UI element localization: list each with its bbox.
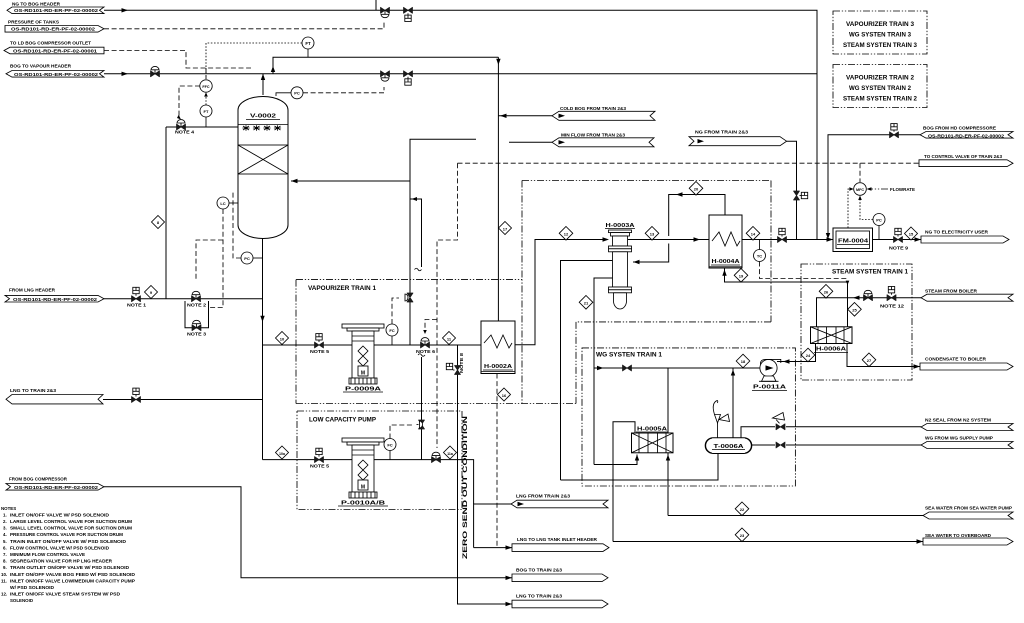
flag: TO LD BOG COMPRESSOR OUTLET (4, 41, 104, 54)
svg-text:STEAM SYSTEN TRAIN 3: STEAM SYSTEN TRAIN 3 (843, 42, 918, 49)
diamond 19 (734, 269, 748, 283)
svg-text:LNG FROM TRAIN 2&3: LNG FROM TRAIN 2&3 (516, 494, 571, 499)
flag: LNG TO TRAIN 2&3 (left) (6, 388, 103, 404)
svg-text:3.: 3. (3, 526, 7, 531)
svg-text:WG SYSTEN TRAIN 3: WG SYSTEN TRAIN 3 (849, 32, 912, 39)
svg-text:CONDENSATE TO BOILER: CONDENSATE TO BOILER (925, 357, 987, 362)
svg-text:INLET ON/OFF VALVE BOG FEED W/: INLET ON/OFF VALVE BOG FEED W/ PSD SOLEN… (10, 572, 135, 577)
svg-text:TRAIN OUTLET ON/OFF VALVE W/ P: TRAIN OUTLET ON/OFF VALVE W/ PSD SOLENOI… (10, 565, 129, 570)
wire: sea water overboard (613, 541, 923, 543)
svg-text:FLOWRATE: FLOWRATE (890, 187, 915, 192)
svg-text:TO CONTROL VALVE OF TRAIN 2&3: TO CONTROL VALVE OF TRAIN 2&3 (924, 154, 1003, 159)
wire: condensate to boiler (847, 344, 920, 367)
svg-text:25: 25 (852, 308, 857, 313)
flag: BOG TO TRAIN 2&3 (506, 568, 609, 582)
diamond 15 (905, 227, 918, 240)
H-0006A heater (811, 327, 853, 353)
flag: N2 SEAL FROM N2 SYSTEM (921, 418, 1013, 431)
bypass loop w/ NOTE 3 valve (185, 301, 209, 328)
svg-text:NG TO BOG HEADER: NG TO BOG HEADER (12, 2, 61, 7)
svg-text:SOLENOID: SOLENOID (10, 598, 33, 603)
svg-text:H-0004A: H-0004A (712, 259, 741, 265)
svg-text:COLD BOG FROM TRAIN 2&3: COLD BOG FROM TRAIN 2&3 (560, 106, 627, 111)
PSV on tank (713, 401, 729, 438)
flag: LNG FROM TRAIN 2&3 (474, 494, 608, 548)
wire (103, 399, 263, 401)
svg-text:PC: PC (876, 217, 882, 222)
svg-text:PC: PC (294, 91, 300, 96)
wire: pump suction/discharge main (263, 344, 482, 346)
svg-text:LOW CAPACITY PUMP: LOW CAPACITY PUMP (309, 417, 376, 424)
svg-text:13: 13 (650, 232, 655, 237)
wire: H-0004A heating side to H-0006A (725, 268, 848, 327)
diamond 22 (735, 502, 749, 516)
flow arrow (122, 8, 129, 12)
packing section (238, 145, 288, 174)
svg-text:2.: 2. (3, 519, 7, 524)
diamond 27 (862, 353, 876, 367)
control valve NOTE 2 (192, 291, 201, 301)
pump P-0010A/B (342, 438, 384, 498)
svg-text:LNG TO TRAIN 2&3: LNG TO TRAIN 2&3 (516, 594, 563, 599)
svg-text:17: 17 (503, 226, 508, 231)
min flow valve (vertical, actuator left) (417, 420, 425, 429)
svg-text:STEAM FROM BOILER: STEAM FROM BOILER (925, 289, 978, 294)
flag: NG FROM TRAIN 2&3 (689, 130, 797, 240)
diamond 14 (746, 227, 760, 241)
svg-text:WG SYSTEN TRAIN 1: WG SYSTEN TRAIN 1 (596, 352, 663, 359)
svg-text:8.: 8. (3, 559, 7, 564)
svg-text:P-0011A: P-0011A (753, 385, 787, 391)
instrument PC (873, 214, 885, 240)
svg-text:TRAIN INLET ON/OFF VALVE W/ PS: TRAIN INLET ON/OFF VALVE W/ PSD SOLENOID (10, 539, 126, 544)
svg-text:NOTE 6: NOTE 6 (416, 349, 436, 354)
svg-text:VAPOURIZER TRAIN 2: VAPOURIZER TRAIN 2 (846, 75, 915, 82)
signal: FT to FFC (206, 43, 302, 79)
signal: FM to MFC (848, 189, 852, 228)
valve NOTE 5 w/ solenoid (315, 448, 324, 462)
svg-text:OS-RD101-RD-ER-PF-02-00002: OS-RD101-RD-ER-PF-02-00002 (11, 27, 96, 32)
svg-text:5.: 5. (3, 539, 7, 544)
svg-text:TC: TC (757, 253, 762, 258)
svg-text:PRESSURE CONTROL VALVE FOR SUC: PRESSURE CONTROL VALVE FOR SUCTION DRUM (10, 532, 123, 537)
svg-text:12: 12 (564, 232, 569, 237)
svg-text:22: 22 (740, 507, 745, 512)
svg-text:MIN FLOW FROM TRAN 2&3: MIN FLOW FROM TRAN 2&3 (561, 133, 626, 138)
svg-text:NOTE 12: NOTE 12 (880, 304, 905, 309)
wire: BOG from HD compressor (828, 135, 920, 236)
diamond 20 (689, 182, 703, 196)
instrument FC (384, 439, 396, 460)
svg-text:M: M (361, 371, 365, 377)
wire: vessel top vent to BOG header (262, 74, 264, 95)
flag: NG TO ELECTRICITY USER (915, 230, 1010, 244)
svg-text:LC: LC (220, 201, 225, 206)
svg-text:15: 15 (909, 231, 914, 236)
wire: sea water header under coolers (561, 454, 719, 481)
svg-text:NOTE 5: NOTE 5 (310, 463, 330, 468)
instrument MFC (854, 183, 867, 196)
svg-text:WG FROM WG SUPPLY PUMP: WG FROM WG SUPPLY PUMP (925, 436, 993, 441)
svg-text:6.: 6. (3, 545, 7, 550)
svg-text:4.: 4. (3, 532, 7, 537)
svg-text:LNG TO TRAIN 2&3: LNG TO TRAIN 2&3 (10, 388, 57, 393)
flag: PRESSURE OF TANKS (5, 20, 104, 33)
flag: LNG TO LNG TANK INLET HEADER (474, 537, 609, 551)
svg-text:FT: FT (305, 41, 311, 46)
flag: BOG TO VAPOUR HEADER (6, 64, 104, 78)
wire: N2 seal line (741, 427, 775, 438)
spray feed line w/ NOTE 4 valve (166, 126, 238, 128)
svg-text:11.: 11. (1, 578, 7, 583)
svg-text:INLET ON/OFF VALVE STEAM SYSTE: INLET ON/OFF VALVE STEAM SYSTEM W/ PSD (10, 592, 120, 597)
svg-text:SEGREGATION VALVE FOR HP LNG H: SEGREGATION VALVE FOR HP LNG HEADER (10, 559, 113, 564)
wire: water from H-0003A to H-0005A (594, 455, 637, 465)
svg-text:1.: 1. (3, 512, 7, 517)
svg-text:FM-0004: FM-0004 (838, 239, 868, 245)
signal: pressure of tanks to valve (104, 22, 384, 29)
wire: tank to pump suction riser (732, 368, 734, 438)
stub w/ break to low capacity min flow (410, 199, 422, 267)
wire: steam from boiler (848, 297, 922, 299)
svg-text:9.: 9. (3, 565, 7, 570)
svg-text:OS-RD101-RD-ER-PF-02-00002: OS-RD101-RD-ER-PF-02-00002 (13, 297, 98, 302)
svg-text:MFC: MFC (856, 188, 864, 192)
wire: WG supply line (752, 444, 922, 446)
wire: H-0002A outlet riser to NG line (515, 240, 603, 345)
FM-0004 flow meter (833, 228, 873, 252)
H-0005A heater (632, 427, 674, 453)
svg-text:ZERO SEND OUT CONDITION: ZERO SEND OUT CONDITION (462, 415, 469, 559)
wire: zero send out dashed from H-0002A bottom (496, 374, 498, 548)
instrument LC (217, 197, 238, 209)
svg-text:26: 26 (824, 290, 829, 295)
svg-text:19: 19 (739, 274, 744, 279)
svg-text:24: 24 (806, 353, 811, 358)
wire (263, 460, 474, 504)
on/off valve before FM (solenoid above) (778, 228, 787, 242)
svg-text:V-0002: V-0002 (250, 114, 276, 120)
svg-text:NOTES: NOTES (1, 506, 16, 511)
signal: FFC to NOTE4 valve (179, 86, 200, 116)
svg-text:23: 23 (740, 533, 745, 538)
diamond 11a (444, 446, 457, 459)
svg-text:VAPOURIZER TRAIN 1: VAPOURIZER TRAIN 1 (308, 285, 377, 292)
wire: steam into H-0006A (817, 298, 848, 327)
svg-text:W/ PSD SOLENOID: W/ PSD SOLENOID (10, 585, 54, 590)
svg-text:FROM LNG HEADER: FROM LNG HEADER (9, 288, 56, 293)
low capacity min flow riser w/ break (421, 357, 423, 460)
svg-text:N2 SEAL FROM N2 SYSTEM: N2 SEAL FROM N2 SYSTEM (925, 418, 991, 423)
wire: spray feed riser from LNG header (165, 127, 167, 299)
pump P-0009A (342, 324, 384, 393)
flag: TO CONTROL VALVE OF TRAIN 2&3 (919, 154, 1013, 167)
flag: COLD BOG FROM TRAIN 2&3 (498, 106, 655, 120)
instrument FC (386, 324, 398, 345)
svg-text:27: 27 (867, 358, 872, 363)
N2 valve w/ relief above (776, 424, 785, 430)
valve NOTE 9 (894, 228, 903, 242)
wire: LNG header (104, 298, 263, 300)
svg-text:BOG FROM HD COMPRESSORE: BOG FROM HD COMPRESSORE (923, 126, 996, 131)
diamond 23 (735, 528, 749, 542)
instrument FFC (200, 80, 212, 92)
svg-text:LARGE LEVEL CONTROL VALVE FOR: LARGE LEVEL CONTROL VALVE FOR SUCTION DR… (10, 519, 132, 524)
svg-text:16: 16 (502, 393, 507, 398)
svg-text:M: M (361, 485, 365, 491)
svg-text:21: 21 (584, 301, 589, 306)
wire: min flow return to drum (291, 180, 410, 182)
svg-text:NOTE 8: NOTE 8 (459, 352, 464, 373)
svg-text:STEAM SYSTEN TRAIN 1: STEAM SYSTEN TRAIN 1 (832, 269, 909, 276)
svg-text:FC: FC (387, 442, 392, 447)
svg-text:18: 18 (741, 359, 746, 364)
signal: FC to low cap min flow valve (390, 425, 412, 439)
svg-text:INLET ON/OFF VALVE W/ PSD SOLE: INLET ON/OFF VALVE W/ PSD SOLENOID (10, 512, 109, 517)
H-0003A knock-out vessel (605, 223, 635, 309)
svg-text:10.: 10. (1, 572, 7, 577)
signal: PC to control valve (303, 87, 384, 93)
wire: NG to BOG header (104, 10, 817, 74)
svg-text:FFC: FFC (202, 85, 210, 89)
svg-text:NOTE 4: NOTE 4 (175, 130, 195, 135)
svg-text:NOTE 2: NOTE 2 (187, 303, 207, 308)
svg-text:NOTE 3: NOTE 3 (187, 332, 207, 337)
wire: sea water from pump (668, 515, 923, 517)
wire: H-0004A recirc loop (633, 195, 725, 263)
svg-text:10: 10 (280, 336, 285, 341)
wire: WG into H-0006A (777, 344, 816, 362)
svg-text:BOG TO VAPOUR HEADER: BOG TO VAPOUR HEADER (10, 64, 72, 69)
diamond 10 (276, 332, 289, 345)
wire: H-0003A water side nozzles (561, 261, 613, 481)
diamond 11 (443, 332, 456, 345)
svg-text:FLOW CONTROL VALVE W/ PSD SOLE: FLOW CONTROL VALVE W/ PSD SOLENOID (10, 545, 109, 550)
svg-text:12.: 12. (1, 592, 7, 597)
steam control valve (864, 290, 873, 300)
wire: cold BOG down into H-0002A (497, 57, 499, 321)
svg-text:7.: 7. (3, 552, 7, 557)
svg-text:H-0002A: H-0002A (484, 364, 513, 370)
svg-text:NG TO ELECTRICITY USER: NG TO ELECTRICITY USER (925, 230, 989, 235)
diamond 13 (645, 227, 659, 241)
wire: stub from page top (375, 0, 377, 10)
svg-text:OS-RD101-RD-ER-PF-02-00002: OS-RD101-RD-ER-PF-02-00002 (14, 8, 99, 13)
control valve on vapour line x385 (actuator below) (381, 71, 390, 81)
steam on/off valve NOTE 12 (887, 287, 896, 301)
svg-text:OS-RD101-RD-ER-PF-02-00002: OS-RD101-RD-ER-PF-02-00002 (14, 485, 99, 490)
valve on NG from train riser (solenoid right) (794, 191, 808, 200)
svg-text:NG FROM TRAIN 2&3: NG FROM TRAIN 2&3 (695, 130, 749, 135)
wire: H-0005A lower right to sea water (667, 453, 669, 516)
vessel V-0002 (238, 97, 288, 239)
on/off valve w/ solenoid below (404, 7, 413, 21)
wire (628, 239, 833, 241)
wire (458, 345, 513, 604)
control valve on low cap discharge (432, 452, 441, 462)
valve on BOG HD line (890, 124, 899, 138)
plain valve (623, 365, 632, 371)
svg-text:SEA WATER TO OVERBOARD: SEA WATER TO OVERBOARD (925, 533, 991, 538)
T-0006A expansion tank (705, 438, 752, 454)
diamond 12 (559, 227, 573, 241)
wire: 613 jog to H-0005A top (613, 422, 635, 542)
valve NOTE 1 w/ solenoid above (132, 287, 141, 301)
svg-text:PC: PC (244, 256, 250, 261)
svg-text:LNG TO LNG TANK INLET HEADER: LNG TO LNG TANK INLET HEADER (517, 537, 598, 542)
valve NOTE 6 control (421, 338, 430, 348)
instrument FT (BOG flow) (302, 37, 314, 57)
signal: TC to steam control valve (760, 262, 848, 279)
svg-text:NOTE 9: NOTE 9 (889, 246, 909, 251)
svg-text:OS-RD101-RD-ER-PF-02-00002: OS-RD101-RD-ER-PF-02-00002 (928, 133, 1005, 138)
H-0004A trim heater (709, 215, 742, 268)
svg-text:NOTE 5: NOTE 5 (310, 349, 330, 354)
diamond 17 (499, 222, 512, 235)
signal: LC loop to NOTE2/NOTE3 valves (210, 209, 223, 308)
signal: FT to FFC arrow (205, 94, 207, 105)
flag: SEA WATER TO OVERBOARD (917, 533, 1014, 545)
svg-text:SEA WATER FROM SEA WATER PUMP: SEA WATER FROM SEA WATER PUMP (925, 506, 1012, 511)
flag: NG TO BOG HEADER (7, 2, 104, 14)
svg-text:OS-RD101-RD-ER-PF-02-00002: OS-RD101-RD-ER-PF-02-00002 (14, 72, 99, 77)
on/off valve x408 solenoid below (404, 71, 413, 85)
svg-text:TO LD BOG COMPRESSOR OUTLET: TO LD BOG COMPRESSOR OUTLET (10, 41, 91, 46)
svg-text:FT: FT (204, 109, 209, 114)
control valve NOTE4-ish at x155 (actuator above) (151, 66, 160, 76)
wire: min flow riser (410, 139, 476, 345)
svg-text:WG SYSTEN TRAIN 2: WG SYSTEN TRAIN 2 (849, 85, 912, 92)
pump P-0011A (752, 359, 787, 390)
wire: vessel bottom outlet down (262, 239, 264, 460)
svg-text:INLET ON/OFF VALVE LOW/MEDIUM: INLET ON/OFF VALVE LOW/MEDIUM CAPACITY P… (10, 578, 135, 583)
svg-text:10a: 10a (279, 452, 286, 456)
instrument PC top (276, 93, 291, 96)
flag: WG FROM WG SUPPLY PUMP (921, 436, 1013, 449)
svg-text:14: 14 (751, 232, 756, 237)
svg-text:STEAM SYSTEN TRAIN 2: STEAM SYSTEN TRAIN 2 (843, 96, 918, 103)
diamond 24 (801, 348, 815, 362)
flag: CONDENSATE TO BOILER (914, 357, 1014, 371)
svg-text:11a: 11a (447, 452, 454, 456)
flag: MIN FLOW FROM TRAN 2&3 (509, 133, 654, 147)
svg-text:BOG TO TRAIN 2&3: BOG TO TRAIN 2&3 (516, 568, 563, 573)
signal: to LD BOG compressor outlet (104, 51, 251, 80)
instrument PC bottom (241, 252, 263, 264)
svg-text:20: 20 (694, 187, 699, 192)
diamond stream on riser (152, 216, 165, 229)
flag: SEA WATER FROM SEA WATER PUMP (923, 506, 1013, 520)
valve NOTE 8 (vertical) w/ solenoid left (446, 363, 460, 374)
svg-text:PRESSURE OF TANKS: PRESSURE OF TANKS (8, 20, 59, 25)
wire (104, 487, 512, 578)
svg-text:NOTE 1: NOTE 1 (127, 303, 147, 308)
diamond 25 (848, 303, 862, 317)
flag: BOG FROM HD COMPRESSORE (920, 126, 1013, 139)
svg-text:SMALL LEVEL CONTROL VALVE FOR: SMALL LEVEL CONTROL VALVE FOR SUCTION DR… (10, 526, 132, 531)
diamond 26 (819, 285, 833, 299)
valve w/ solenoid above (132, 388, 141, 402)
svg-text:FROM BOG COMPRESSOR: FROM BOG COMPRESSOR (9, 477, 68, 482)
svg-text:FC: FC (389, 328, 394, 333)
diamond 16 (498, 388, 511, 401)
wire: BOG to vapour header (104, 74, 817, 240)
signal: FC to min flow valve (392, 298, 399, 324)
flag: FROM LNG HEADER (5, 288, 104, 303)
svg-text:VAPOURIZER TRAIN 3: VAPOURIZER TRAIN 3 (846, 21, 915, 28)
diamond stream 8 (145, 286, 158, 299)
wire: H-0005A right riser (667, 368, 669, 436)
control valve on NG line (actuator below) (381, 7, 390, 17)
flag: STEAM FROM BOILER (921, 289, 1013, 302)
wire: riser to BOG crossover (y57) (273, 57, 498, 74)
spray nozzles (242, 125, 281, 131)
diamond 10a (276, 446, 289, 459)
svg-text:H-0006A: H-0006A (816, 347, 847, 353)
wire: WG pump suction line (594, 367, 761, 369)
instrument TC (754, 240, 766, 262)
diamond 21 (579, 296, 593, 310)
flag: FROM BOG COMPRESSOR (6, 477, 104, 491)
diamond 18 (736, 354, 750, 368)
min flow control valve (vertical) (405, 293, 413, 302)
flag: LNG TO TRAIN 2&3 (bottom) (506, 594, 609, 608)
svg-text:OS-RD101-RD-ER-PF-02-00001: OS-RD101-RD-ER-PF-02-00001 (13, 48, 98, 53)
svg-text:MINIMUM FLOW CONTROL VALVE: MINIMUM FLOW CONTROL VALVE (10, 552, 85, 557)
instrument FT spray (200, 105, 212, 127)
valve NOTE 5 w/ solenoid (315, 334, 324, 348)
